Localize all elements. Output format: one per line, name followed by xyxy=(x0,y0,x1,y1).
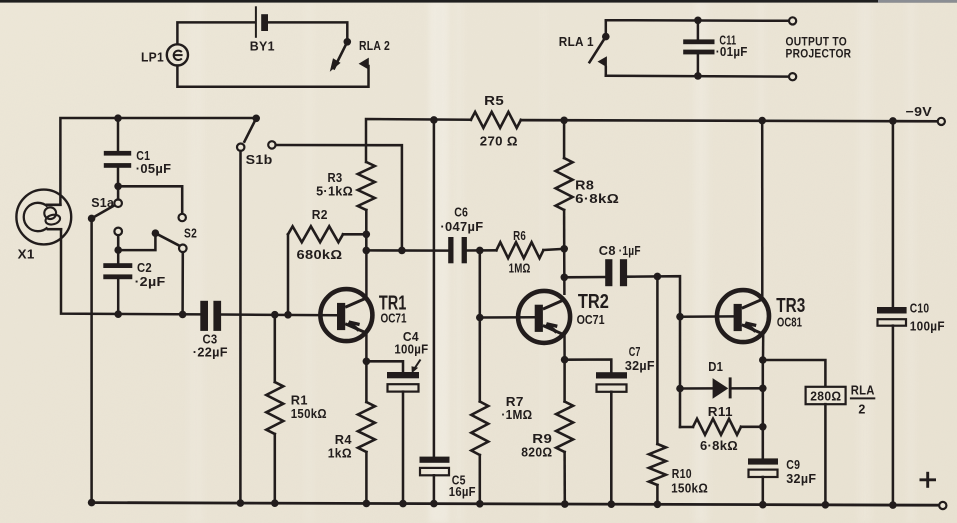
svg-text:150kΩ: 150kΩ xyxy=(291,407,327,421)
label OUTPUT TO PROJECTOR xyxy=(786,37,852,61)
diode D1 xyxy=(680,360,763,399)
switch S1a xyxy=(88,186,122,235)
resistor R10 xyxy=(649,276,708,504)
terminal + xyxy=(920,472,947,509)
wire X1 bottom lead xyxy=(61,229,200,314)
wire TR3 emitter xyxy=(759,335,767,364)
svg-text:·1µF: ·1µF xyxy=(619,244,641,258)
capacitor C10 xyxy=(877,121,945,505)
wire collector node to C6 xyxy=(366,249,448,252)
capacitor C11 xyxy=(683,20,748,76)
svg-text:BY1: BY1 xyxy=(250,39,275,53)
svg-text:PROJECTOR: PROJECTOR xyxy=(786,48,852,60)
svg-text:D1: D1 xyxy=(708,360,723,374)
resistor R1 xyxy=(266,315,327,504)
resistor R6 xyxy=(496,229,564,275)
capacitor C3 xyxy=(193,301,228,360)
svg-text:C6: C6 xyxy=(454,205,468,219)
wire TR3 base xyxy=(680,315,734,318)
svg-text:C9: C9 xyxy=(786,458,800,472)
wire C2 node to S2 common xyxy=(118,237,155,251)
svg-text:·05µF: ·05µF xyxy=(136,162,172,176)
svg-text:R4: R4 xyxy=(335,433,352,447)
svg-text:C3: C3 xyxy=(203,332,218,346)
resistor R2 xyxy=(288,208,366,315)
svg-text:R9: R9 xyxy=(532,432,552,446)
transistor TR3 xyxy=(717,290,805,342)
svg-text:OC71: OC71 xyxy=(577,312,605,327)
svg-text:C10: C10 xyxy=(910,302,930,316)
wire output bottom xyxy=(606,72,789,80)
svg-text:RLA: RLA xyxy=(851,383,875,397)
wire C1 node to spare contact xyxy=(118,186,186,221)
wire emitter to relay coil xyxy=(763,360,826,387)
wire TR2 collector node xyxy=(561,249,569,294)
svg-text:OC81: OC81 xyxy=(777,314,802,329)
svg-text:S2: S2 xyxy=(184,226,197,240)
switch S2 xyxy=(152,226,197,252)
wire lamp-battery loop top xyxy=(177,22,254,44)
svg-text:R5: R5 xyxy=(484,94,504,108)
node TR2 collector xyxy=(560,245,568,253)
svg-text:R11: R11 xyxy=(708,405,733,419)
resistor R5 xyxy=(471,94,521,148)
svg-text:100µF: 100µF xyxy=(394,343,428,357)
svg-text:1MΩ: 1MΩ xyxy=(509,261,531,275)
terminal output bottom xyxy=(789,73,796,80)
capacitor C7 xyxy=(565,345,655,504)
wire S1b left contact to ground xyxy=(239,151,242,503)
resistor R8 xyxy=(556,120,620,249)
capacitor C8 xyxy=(564,244,641,286)
svg-text:820Ω: 820Ω xyxy=(521,446,552,460)
capacitor C9 xyxy=(748,458,816,505)
node R2/R3 junction xyxy=(363,231,371,239)
svg-text:C2: C2 xyxy=(137,261,152,275)
svg-text:280Ω: 280Ω xyxy=(810,389,841,403)
svg-text:·1MΩ: ·1MΩ xyxy=(501,408,532,422)
svg-text:S1a: S1a xyxy=(91,196,115,210)
relay contact RLA1 xyxy=(559,21,610,76)
wire ground rail xyxy=(88,499,940,509)
svg-text:R3: R3 xyxy=(328,171,343,185)
capacitor C6 xyxy=(440,205,483,263)
terminal output top xyxy=(789,17,796,24)
svg-text:·2µF: ·2µF xyxy=(135,275,166,289)
wire C8 to TR3 node xyxy=(627,273,680,427)
resistor R7 xyxy=(471,318,532,504)
svg-text:X1: X1 xyxy=(18,247,35,261)
svg-text:·047µF: ·047µF xyxy=(440,220,483,234)
svg-text:1kΩ: 1kΩ xyxy=(328,447,352,461)
svg-text:R10: R10 xyxy=(672,467,692,481)
svg-text:R1: R1 xyxy=(291,394,308,408)
svg-text:−9V: −9V xyxy=(906,104,933,119)
wire TR2 base xyxy=(480,316,535,319)
wire S2 contact down xyxy=(181,252,184,314)
svg-text:16µF: 16µF xyxy=(449,485,476,499)
wire C3 to TR1 base xyxy=(221,311,337,319)
capacitor C4 xyxy=(366,330,428,503)
svg-text:R2: R2 xyxy=(312,208,328,222)
transistor TR1 xyxy=(320,289,406,341)
svg-text:R8: R8 xyxy=(575,179,594,193)
photocell X1 xyxy=(16,190,71,262)
wire relay coil to ground xyxy=(824,404,827,505)
transistor TR2 xyxy=(518,291,609,343)
resistor R4 xyxy=(328,361,375,503)
wire S1a lower contact to C2 node xyxy=(114,235,122,254)
node S2 junction xyxy=(179,311,187,319)
svg-text:LP1: LP1 xyxy=(141,50,164,64)
wire battery to RLA2 xyxy=(268,22,347,38)
svg-text:C1: C1 xyxy=(136,149,150,163)
svg-text:6·8kΩ: 6·8kΩ xyxy=(700,439,738,453)
relay coil RLA/2 280Ω xyxy=(806,383,876,416)
svg-text:5·1kΩ: 5·1kΩ xyxy=(316,184,353,198)
svg-text:R7: R7 xyxy=(506,395,524,409)
svg-text:32µF: 32µF xyxy=(625,359,655,373)
wire S1a common to ground xyxy=(90,218,93,502)
wire output top xyxy=(606,17,789,25)
capacitor C2 xyxy=(103,250,165,314)
svg-text:OUTPUT TO: OUTPUT TO xyxy=(786,37,848,49)
svg-text:32µF: 32µF xyxy=(786,472,816,486)
svg-text:2: 2 xyxy=(858,403,865,417)
wire TR2 emitter xyxy=(561,335,569,363)
svg-text:OC71: OC71 xyxy=(381,311,407,326)
svg-text:270 Ω: 270 Ω xyxy=(480,135,518,149)
wire C6 to R6 xyxy=(467,247,497,255)
relay contact RLA2 xyxy=(330,38,390,72)
capacitor C5 xyxy=(420,120,476,504)
svg-text:6·8kΩ: 6·8kΩ xyxy=(575,192,619,206)
wire -9V rail right segment xyxy=(430,116,938,125)
svg-text:C7: C7 xyxy=(629,345,641,359)
svg-text:150kΩ: 150kΩ xyxy=(671,481,708,495)
node TR3 base tap xyxy=(676,313,684,321)
svg-text:RLA 2: RLA 2 xyxy=(359,39,390,53)
node C1 bottom xyxy=(114,183,122,191)
svg-text:R6: R6 xyxy=(513,229,526,243)
switch S1b xyxy=(237,115,276,168)
terminal -9V xyxy=(906,104,945,125)
svg-text:·01µF: ·01µF xyxy=(716,45,748,59)
resistor R9 xyxy=(521,360,573,504)
wire TR1 collector to node xyxy=(365,250,368,297)
svg-text:RLA 1: RLA 1 xyxy=(559,35,594,49)
wire -9V rail left segment xyxy=(366,119,471,162)
resistor R3 xyxy=(316,162,375,250)
wire TR3 emitter branch xyxy=(759,360,767,458)
wire TR1 emitter xyxy=(363,334,371,366)
node D1 anode tap xyxy=(676,385,684,393)
node TR1 collector xyxy=(363,247,406,255)
wire loop bottom xyxy=(177,66,368,87)
battery BY1 xyxy=(250,6,275,53)
capacitor C1 xyxy=(104,118,172,186)
wire X1 top lead to rail xyxy=(60,114,255,204)
svg-text:100µF: 100µF xyxy=(910,319,945,333)
node X1/C2 junction xyxy=(114,310,122,318)
lamp LP1 xyxy=(141,44,188,65)
svg-text:680kΩ: 680kΩ xyxy=(297,248,343,262)
svg-text:TR2: TR2 xyxy=(578,291,609,313)
resistor R11 xyxy=(680,405,763,453)
wire TR3 collector to rail xyxy=(761,121,764,298)
wire S1b right contact to collector node xyxy=(276,145,402,250)
svg-text:·22µF: ·22µF xyxy=(193,346,228,360)
svg-text:S1b: S1b xyxy=(246,153,273,167)
svg-text:C8: C8 xyxy=(599,244,616,258)
wire node A to TR2 base xyxy=(476,250,484,321)
